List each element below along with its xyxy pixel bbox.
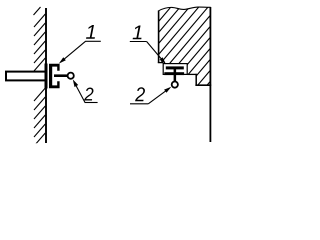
channel box (front view) [163, 64, 187, 75]
leader 1 (left view) [61, 41, 101, 62]
notch bottom edge [187, 73, 197, 75]
wall section hatching (left wall) [34, 7, 46, 146]
block break (wavy top) [159, 7, 211, 11]
wall face line (right edge, continues down) [209, 7, 211, 142]
block hatching [55, 0, 303, 100]
T-bolt stem (front view) [174, 69, 177, 81]
rod (embedded bar) [6, 72, 46, 81]
label 1 (right view) [133, 25, 142, 39]
bolt eye circle (left view) [68, 73, 74, 79]
leader 1 (right view) [130, 42, 165, 63]
step vertical edge [195, 74, 197, 86]
arrowhead 2 (right view) [164, 87, 171, 93]
block left edge [158, 11, 160, 63]
T-bolt stem (left view) [54, 74, 68, 77]
channel slot upper bar [166, 66, 184, 69]
label 2 (right view) [135, 87, 145, 101]
label 2 (left view) [84, 88, 93, 101]
arrowhead 2 (left view) [73, 79, 78, 87]
block bottom edge [195, 84, 211, 86]
channel lower bar [164, 72, 184, 75]
block bottom-left edge [158, 62, 163, 64]
bracket back plate [45, 64, 48, 89]
wall face line [45, 8, 47, 143]
label 1 (left view) [86, 25, 95, 39]
arrowhead 1 (left view) [59, 57, 66, 63]
leader 2 (right view) [130, 88, 170, 104]
C-channel (side section, lips right) [49, 64, 60, 88]
bolt eye circle (front view) [172, 82, 178, 88]
leader 2 (left view) [75, 83, 98, 103]
arrowhead 1 (right view) [160, 57, 166, 64]
